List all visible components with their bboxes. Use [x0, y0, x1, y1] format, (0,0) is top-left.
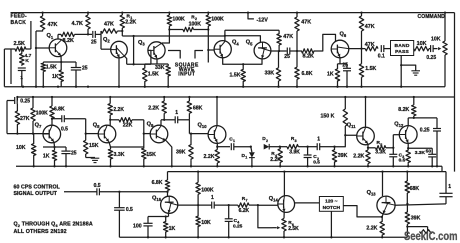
- svg-text:39K: 39K: [411, 215, 421, 221]
- wire Q7 emitter: [43, 142, 66, 148]
- svg-text:0.25: 0.25: [420, 127, 430, 133]
- wire Q11 base step: [335, 134, 357, 147]
- transistor Q2: [103, 37, 127, 58]
- wire 39K to trimmer: [407, 227, 427, 238]
- resistor 2.2K (Q8 load): [108, 96, 124, 120]
- wire input drop: [16, 96, 18, 101]
- svg-text:Q8: Q8: [93, 122, 100, 129]
- resistor 1K (Q6 emitter): [327, 64, 340, 88]
- capacitor 100: [133, 217, 153, 239]
- capacitor 25 (Q6 bypass): [342, 63, 351, 88]
- wire Q10 base column: [189, 120, 208, 135]
- wire shared emitters: [223, 58, 262, 65]
- wire Q4 collector up: [224, 30, 226, 41]
- svg-text:25: 25: [284, 54, 290, 60]
- svg-text:K: K: [25, 58, 29, 64]
- wire Q6 emitter node: [338, 57, 348, 63]
- resistor 100K (Q15 load): [196, 172, 214, 206]
- svg-text:1: 1: [448, 184, 451, 190]
- svg-text:BAND: BAND: [395, 43, 410, 49]
- wire 1.5K to bus: [42, 72, 44, 88]
- wire bottom supply rail: [168, 170, 447, 172]
- resistor 2.2K (mid): [148, 96, 166, 120]
- svg-text:1.5K: 1.5K: [148, 72, 159, 78]
- resistor 1.5K (Q6 out): [359, 49, 376, 88]
- svg-text:0.5: 0.5: [313, 160, 320, 166]
- resistor 8.2K (Q6 base): [297, 49, 315, 60]
- svg-text:1: 1: [245, 156, 247, 160]
- capacitor 0.5 (Q7-Q8): [52, 115, 86, 132]
- wire Q2 emitter to bus: [118, 58, 120, 87]
- resistor 1K (Q1 emitter): [52, 62, 63, 87]
- capacitor 1 (Q9-Q10): [164, 110, 189, 124]
- wire Q8 collector up: [109, 119, 111, 126]
- transistor Q4: [214, 40, 239, 58]
- svg-text:6.8K: 6.8K: [152, 180, 163, 186]
- diode D1: [242, 146, 255, 168]
- node junction 4.7K top: [21, 48, 23, 50]
- svg-text:60 CPS CONTROL: 60 CPS CONTROL: [14, 185, 61, 191]
- capacitor C1: [217, 137, 251, 151]
- block BAND PASS box: [391, 41, 414, 56]
- svg-text:1: 1: [317, 136, 320, 142]
- svg-text:47K: 47K: [365, 42, 375, 48]
- svg-text:Q9: Q9: [147, 121, 154, 128]
- wire middle supply rail: [17, 96, 454, 98]
- resistor 100K (Q7 bias): [31, 96, 48, 134]
- node watermark: [404, 230, 458, 243]
- resistor 8.2K (Q12 load): [398, 96, 416, 118]
- transistor Q9: [147, 121, 168, 142]
- wire Q9 emitter: [166, 141, 173, 168]
- capacitor 0.5 (output): [94, 183, 169, 195]
- wire bandpass to bus: [400, 56, 402, 88]
- svg-text:1K: 1K: [169, 226, 176, 232]
- resistor 47K (bias right): [295, 11, 311, 52]
- capacitor 25 (Q5-Q6): [284, 48, 297, 61]
- wire Q14 to notch: [295, 202, 320, 204]
- svg-text:2: 2: [266, 139, 268, 143]
- transistor Q10: [198, 122, 226, 143]
- svg-text:100K: 100K: [201, 187, 214, 193]
- resistor 3.3K (Q8 emitter): [108, 147, 124, 167]
- svg-text:47K: 47K: [301, 20, 311, 26]
- capacitor C3 0.5: [389, 147, 405, 168]
- svg-text:Q2: Q2: [103, 37, 110, 44]
- diode D2: [262, 136, 280, 149]
- node FEED-BACK label: [11, 14, 28, 26]
- wire cross-couple feed: [122, 31, 225, 64]
- wire to cap 25: [75, 33, 93, 35]
- svg-text:3.3K: 3.3K: [375, 150, 386, 156]
- resistor R4 2.2K: [270, 146, 282, 168]
- transistor Q1: [47, 33, 67, 56]
- resistor 1.5K (Q4/Q5 emitters): [230, 63, 246, 88]
- svg-text:47K: 47K: [48, 22, 58, 28]
- wire 47K to R1 node: [117, 30, 123, 32]
- resistor 4.7K: [20, 49, 32, 66]
- svg-text:FEED-: FEED-: [11, 14, 28, 20]
- svg-text:Q14: Q14: [269, 196, 279, 203]
- resistor 47K (Q6 collector load): [359, 11, 374, 48]
- wire Q2 collector down: [125, 56, 127, 64]
- node square wave input stubs: [168, 51, 203, 59]
- resistor 68K (mid): [187, 96, 202, 120]
- svg-text:0.5: 0.5: [399, 158, 406, 164]
- svg-text:Q7: Q7: [35, 122, 42, 129]
- svg-text:3.3K: 3.3K: [415, 150, 426, 156]
- svg-text:Q11: Q11: [347, 123, 356, 130]
- svg-text:25: 25: [91, 39, 97, 45]
- svg-text:2.5K: 2.5K: [288, 226, 299, 232]
- svg-text:47K: 47K: [365, 24, 375, 30]
- capacitor 25 (Q7 bypass): [61, 147, 76, 167]
- resistor 39K (Q11 base): [332, 146, 347, 168]
- svg-text:0.25: 0.25: [20, 99, 30, 105]
- resistor 6.8K (Q5 out): [295, 51, 313, 88]
- svg-text:50: 50: [426, 149, 432, 155]
- svg-text:2.2K: 2.2K: [353, 153, 364, 159]
- wire Q11 collector to rail: [364, 96, 366, 128]
- svg-text:2.2K: 2.2K: [125, 19, 136, 25]
- node -12V tap: [247, 11, 268, 23]
- svg-text:2.2K: 2.2K: [204, 154, 215, 160]
- svg-text:2.2K: 2.2K: [366, 225, 377, 231]
- svg-text:0.25: 0.25: [233, 224, 243, 230]
- wire cross couple to Q5 base: [224, 35, 261, 43]
- resistor 22K: [110, 118, 144, 129]
- svg-text:0.5: 0.5: [61, 127, 68, 133]
- label 1.5K: [46, 64, 57, 70]
- ground (15K): [86, 154, 100, 163]
- svg-text:Q5: Q5: [246, 40, 253, 47]
- svg-text:15K: 15K: [89, 143, 99, 149]
- svg-text:8.2K: 8.2K: [398, 107, 409, 113]
- resistor 100K (right): [206, 11, 224, 30]
- svg-text:1.5K: 1.5K: [365, 66, 376, 72]
- resistor 39K (Q10 base): [176, 134, 193, 168]
- ground (bandpass): [401, 65, 420, 75]
- svg-text:SeekIC.com: SeekIC.com: [404, 230, 458, 243]
- wire Q3 collector to 100K: [162, 28, 171, 43]
- wire Q13 collector out: [395, 203, 446, 205]
- svg-text:Q1: Q1: [47, 33, 54, 40]
- svg-text:Q13: Q13: [367, 190, 377, 197]
- svg-text:0.5: 0.5: [126, 207, 133, 213]
- wire Q9 base column: [143, 120, 151, 147]
- capacitor 0.25 (command): [426, 45, 436, 61]
- resistor 68K (Q13 load): [405, 172, 419, 204]
- wire Q1 base column: [35, 31, 37, 87]
- wire Q7 collector node: [51, 118, 53, 126]
- resistor 8.2K (Q1-Q2 coupling): [61, 32, 75, 44]
- resistor 1.5K (Q1): [41, 62, 45, 72]
- wire bottom ground bus: [119, 236, 407, 238]
- resistor R2 100K: [169, 15, 208, 32]
- transistor Q7: [35, 122, 61, 143]
- wire R7 out junction: [249, 204, 259, 206]
- capacitor 1 (Q15-Q14): [211, 195, 238, 208]
- wire Q8 emitter link: [109, 142, 144, 147]
- wire top section ground bus: [4, 86, 445, 88]
- svg-text:10K: 10K: [16, 145, 26, 151]
- resistor R3 3.9K: [280, 136, 308, 155]
- resistor 6.8K (Q7 load): [50, 96, 65, 119]
- resistor 33K (Q5 load): [265, 51, 281, 88]
- wire Q15 base: [167, 192, 169, 197]
- svg-text:100K: 100K: [172, 17, 185, 23]
- resistor 47K (Q5 collector): [277, 30, 293, 52]
- transistor Q6: [331, 32, 349, 58]
- svg-text:0.25: 0.25: [426, 55, 436, 61]
- svg-text:33K: 33K: [265, 71, 275, 77]
- wire input left leg: [6, 101, 8, 134]
- wire notch to bus: [330, 211, 332, 238]
- transistor Q14: [269, 196, 295, 213]
- svg-text:PASS: PASS: [395, 49, 409, 55]
- resistor 6.8K (Q15 base): [152, 172, 170, 192]
- transistor Q15: [152, 196, 178, 214]
- svg-text:BACK: BACK: [11, 20, 27, 26]
- svg-text:25: 25: [82, 65, 88, 71]
- wire Q12 emitter node: [407, 143, 432, 149]
- svg-text:8.2K: 8.2K: [303, 54, 314, 60]
- capacitor 1 (feedback): [18, 68, 26, 87]
- svg-text:Q6: Q6: [340, 32, 347, 39]
- capacitor 0.25 (Q12 out): [420, 118, 441, 168]
- wire Q5 collector: [271, 50, 287, 52]
- wire Q14 base: [258, 204, 278, 206]
- node SQUARE WAVE INPUT label: [175, 62, 199, 77]
- wire Q2 base column: [101, 31, 111, 49]
- capacitor 1 (Q13 out): [439, 172, 452, 204]
- wire Q12 collector: [408, 117, 437, 126]
- block 120 NOTCH box: [319, 197, 343, 212]
- svg-text:68K: 68K: [410, 186, 420, 192]
- svg-text:1: 1: [233, 139, 235, 143]
- resistor 33K (Q3): [155, 64, 170, 88]
- potentiometer 10K: [431, 11, 447, 86]
- svg-text:6.8K: 6.8K: [302, 71, 313, 77]
- svg-text:25: 25: [342, 63, 348, 69]
- svg-text:10K: 10K: [431, 36, 441, 42]
- resistor R5 3.3K: [368, 140, 393, 155]
- svg-text:0.1: 0.1: [378, 54, 385, 60]
- svg-text:47K: 47K: [283, 34, 293, 40]
- capacitor 25 (Q1 bypass): [71, 62, 88, 88]
- svg-text:1: 1: [175, 110, 178, 116]
- resistor 150K: [321, 96, 348, 135]
- resistor 47K (to bandpass): [365, 42, 378, 51]
- svg-text:2.5K: 2.5K: [14, 41, 25, 47]
- resistor 47K (Q1 collector load): [36, 11, 57, 31]
- svg-text:NOTCH: NOTCH: [323, 205, 341, 211]
- resistor 2.2K (Q11 emitter): [353, 144, 370, 168]
- wire Q6 collector node: [349, 47, 366, 49]
- svg-text:39K: 39K: [176, 149, 186, 155]
- transistor Q8: [93, 122, 116, 143]
- wire Q4 base column: [207, 30, 214, 63]
- resistor 2.5K: [4, 41, 31, 51]
- svg-text:Q10: Q10: [198, 122, 208, 129]
- svg-text:6.8K: 6.8K: [54, 106, 65, 112]
- resistor 100K (left): [167, 11, 185, 29]
- resistor 3.3K (Q12 emitter): [406, 149, 425, 167]
- resistor 10K (div): [196, 205, 211, 238]
- svg-text:2.2K: 2.2K: [113, 107, 124, 113]
- svg-text:3.9K: 3.9K: [289, 149, 300, 155]
- resistor 15K (Q9 base): [142, 147, 156, 167]
- svg-text:ALL OTHERS 2N192: ALL OTHERS 2N192: [14, 229, 67, 235]
- resistor 10K (Q7 base): [16, 134, 36, 168]
- svg-text:27K: 27K: [20, 116, 30, 122]
- capacitor C2 0.5: [304, 146, 321, 168]
- potentiometer arrow R6: [273, 226, 281, 229]
- svg-text:2.2K: 2.2K: [148, 106, 159, 112]
- wire Q10 collector to rail: [216, 96, 218, 126]
- svg-text:Q15: Q15: [152, 196, 162, 203]
- capacitor 0.5 (branch): [114, 207, 133, 237]
- wire output branch down: [118, 192, 120, 208]
- wire middle ground bus: [16, 165, 442, 167]
- resistor R1 2.2K: [120, 11, 136, 31]
- wire Q1 collector up: [58, 34, 61, 39]
- wire Q8 base column: [85, 119, 99, 141]
- svg-text:25: 25: [71, 150, 77, 156]
- svg-text:100K: 100K: [211, 17, 224, 23]
- wire Q3 base link: [148, 50, 151, 64]
- wire Q7 base row: [7, 132, 50, 134]
- resistor 1K (Q7 emitter): [43, 147, 57, 167]
- svg-text:Q4: Q4: [232, 40, 239, 47]
- wire Q4 collector to 47K: [225, 29, 279, 31]
- wire 60cps output: [64, 191, 97, 193]
- wire Q1 emitter row: [43, 56, 76, 63]
- wire top -12V supply bus: [11, 12, 455, 14]
- svg-text:1K: 1K: [327, 72, 334, 78]
- svg-text:22K: 22K: [123, 122, 133, 128]
- wire Q13 base from rail: [382, 172, 384, 197]
- svg-text:Q2 THROUGH Q6 ARE 2N188A: Q2 THROUGH Q6 ARE 2N188A: [14, 222, 93, 229]
- resistor 4.7K (supply): [72, 11, 91, 35]
- transistor Q11: [347, 123, 375, 145]
- svg-text:47K: 47K: [104, 22, 114, 28]
- svg-text:8.2K: 8.2K: [63, 38, 74, 44]
- resistor 2.2K (Q10 emitter): [204, 143, 220, 168]
- node 60 CPS output labels: [14, 185, 61, 198]
- resistor 1K (Q15 emitter): [164, 217, 176, 239]
- wire feedback stub: [30, 21, 32, 49]
- svg-text:0.5: 0.5: [94, 183, 101, 189]
- svg-text:1: 1: [211, 195, 214, 201]
- transistor Q5: [246, 40, 271, 59]
- capacitor 0.1: [378, 45, 391, 60]
- resistor 27K: [15, 104, 30, 134]
- wire left drop to bus: [4, 49, 11, 87]
- svg-text:39K: 39K: [338, 153, 348, 159]
- svg-text:68K: 68K: [193, 106, 203, 112]
- node COMMAND label: [418, 14, 446, 20]
- wire Q12 base step: [393, 135, 399, 148]
- svg-text:33K: 33K: [155, 65, 165, 71]
- resistor 15K (Q8 base): [84, 140, 99, 154]
- wire right border drop from top bus: [454, 13, 456, 172]
- svg-text:4.7K: 4.7K: [72, 21, 83, 27]
- svg-text:1K: 1K: [43, 154, 50, 160]
- resistor 39K (Q13 div): [405, 204, 420, 228]
- wire Q9 collector node: [161, 119, 165, 126]
- svg-text:1.5K: 1.5K: [46, 64, 57, 70]
- transistor Q3: [138, 40, 165, 59]
- capacitor 50: [426, 148, 437, 167]
- wire Q6 base jog: [315, 34, 336, 51]
- svg-text:120 ~: 120 ~: [325, 199, 338, 205]
- wire Q15 emitter node: [148, 213, 169, 217]
- svg-text:3.3K: 3.3K: [114, 152, 125, 158]
- svg-text:3: 3: [295, 139, 297, 143]
- svg-text:1: 1: [20, 75, 23, 81]
- wire Q14 collector to rail: [283, 172, 285, 197]
- svg-text:COMMAND: COMMAND: [418, 14, 446, 20]
- wire Q15 collector out: [178, 204, 212, 206]
- resistor R6 2.5K: [282, 212, 299, 238]
- capacitor 1 (to Q11): [308, 136, 335, 150]
- svg-text:1.5K: 1.5K: [230, 73, 241, 79]
- svg-text:100K: 100K: [189, 21, 202, 27]
- svg-text:2.2K: 2.2K: [270, 157, 281, 163]
- resistor 47K (Q2 feedback): [101, 22, 117, 34]
- svg-text:15K: 15K: [146, 152, 156, 158]
- wire Q3 emitter split: [145, 58, 168, 64]
- wire mid-bus drop to rail2: [441, 166, 443, 171]
- transistor Q12: [394, 121, 417, 143]
- svg-text:SIGNAL OUTPUT: SIGNAL OUTPUT: [14, 191, 58, 197]
- resistor 1.5K (Q3 emitter): [143, 64, 159, 88]
- wire Q1 base stub: [36, 47, 49, 49]
- wire collector row: [127, 63, 151, 65]
- svg-text:100: 100: [133, 223, 142, 229]
- svg-text:5: 5: [380, 143, 382, 147]
- capacitor 0.25 (input): [7, 97, 30, 105]
- svg-text:100K: 100K: [36, 111, 48, 117]
- resistor R7 6.2K: [238, 196, 250, 214]
- resistor 2.2K (Q13 emitter): [366, 214, 384, 239]
- svg-text:1K: 1K: [52, 74, 59, 80]
- potentiometer wiper arrow: [433, 47, 441, 50]
- capacitor 25 (Q1-Q2): [91, 31, 101, 45]
- svg-text:Q3: Q3: [138, 40, 145, 47]
- wire wiper branch: [258, 205, 273, 228]
- svg-text:150 K: 150 K: [321, 113, 335, 119]
- svg-text:10K: 10K: [417, 41, 427, 47]
- transistor Q13: [367, 190, 396, 214]
- svg-text:INPUT: INPUT: [178, 72, 195, 78]
- svg-text:6.2K: 6.2K: [239, 208, 250, 214]
- svg-text:10K: 10K: [201, 220, 211, 226]
- svg-text:Q12: Q12: [394, 121, 404, 128]
- node transistor type note: [14, 222, 93, 236]
- capacitor C4 0.25: [225, 205, 243, 238]
- resistor 10K (bandpass out): [414, 41, 429, 51]
- trimmer (bottom right): [420, 230, 433, 234]
- svg-text:7: 7: [246, 199, 248, 203]
- svg-text:-12V: -12V: [257, 17, 269, 23]
- wire notch out: [343, 206, 383, 218]
